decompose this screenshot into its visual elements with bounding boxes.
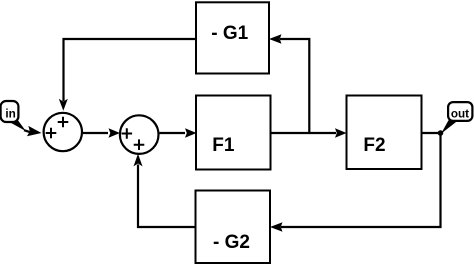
svg-text:in: in xyxy=(5,107,15,120)
svg-text:- G2: - G2 xyxy=(213,232,250,253)
svg-text:F2: F2 xyxy=(363,135,385,156)
svg-text:out: out xyxy=(451,107,469,120)
svg-text:- G1: - G1 xyxy=(211,23,248,44)
svg-text:F1: F1 xyxy=(212,135,235,156)
